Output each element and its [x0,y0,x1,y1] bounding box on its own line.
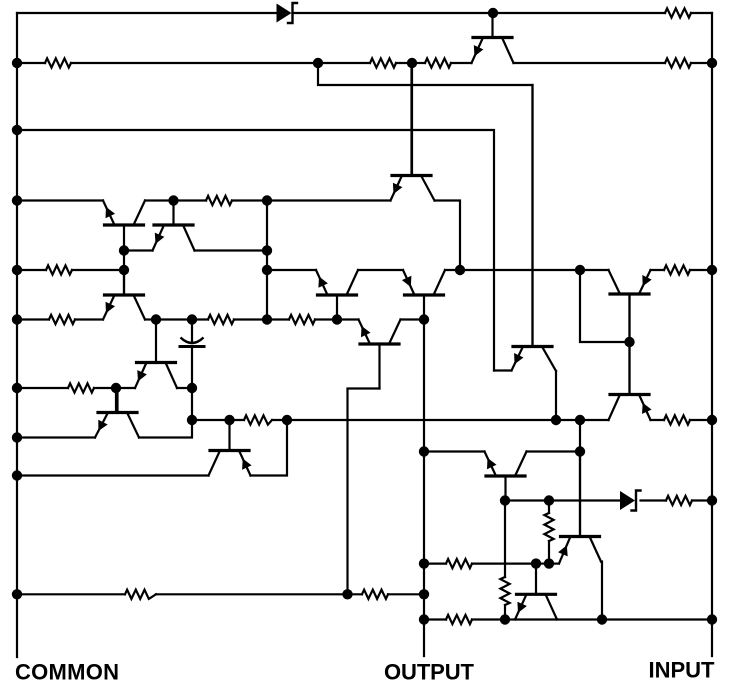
junction Q7/Q12 base node [624,337,634,347]
wire Q11 emitter to x494 [494,369,512,371]
wire y619 OUTPUT node to R19 [424,618,446,620]
wire R1 to node at x318 [71,62,318,64]
junction Q15 base node y500 [500,495,510,505]
wire y420 node287 to node556 [287,419,556,421]
junction Q14 base node y420 [224,415,234,425]
junction left rail y594 [12,589,22,599]
wire y619 node505 to Q16 collector node [505,618,602,620]
wire y130 long horizontal then down x494 [17,130,494,371]
transistor Q1 [472,13,514,63]
transistor Q15 [485,452,527,501]
wire Q9 collector to node x192 [177,387,192,389]
transistor Q12 [609,342,652,420]
wire cap top lead [191,320,193,344]
junction x267 y319 [262,314,272,324]
transistor Q14 [209,420,252,476]
junction x267 y200 [262,195,272,205]
junction right rail y420 [707,415,717,425]
wire x124 vertical base link [123,251,125,296]
resistor R19 [446,615,472,624]
wire left COMMON rail vertical [16,13,18,657]
junction left rail y200 [12,195,22,205]
wire y500 node549 to D2 anode [549,499,620,501]
wire R19 to node x505 [472,618,505,620]
transistor Q6 [402,270,445,320]
wire R9 to Q8 emitter [75,318,103,320]
transistor Q11 [512,85,557,371]
wire y451 OUTPUT node to Q15 emitter [424,450,485,452]
resistor R4 [665,58,691,67]
junction x580 y451 [575,446,585,456]
wire Q6 collector to node x460 [445,269,460,271]
junction right rail y500 [707,495,717,505]
wire y437 left rail to Q13 emitter [17,436,95,438]
junction x549 y563 [544,558,554,568]
wire R17 to divider node x347 [156,593,348,595]
wire node549 to Q16 emitter [549,562,559,564]
wire R10 to x267 [234,318,267,320]
wire OUTPUT line vertical [423,320,425,657]
wire y594 node347 to R18 [348,593,363,595]
resistor R18 [362,590,388,599]
wire D2 cathode to R15 [641,499,667,501]
junction left rail y270 [12,265,22,275]
wire R7 to Q2/Q8 base node [72,269,124,271]
wire R3 to Q1 emitter [451,62,472,64]
diode D2 (zener) [620,491,641,511]
transistor Q10 [359,320,401,389]
resistor R7 [46,265,72,274]
resistor R16 [446,559,472,568]
wire y270 left rail to R7 [17,269,46,271]
junction left rail y388 [12,383,22,393]
junction x192 y420 [187,415,197,425]
resistor R17 [125,590,156,599]
junction x602 y619 [597,614,607,624]
resistor R8 [664,265,690,274]
wire cap bottom lead [191,347,193,389]
transistor Q3 [153,201,195,251]
wire Q15 collector to node x580 [527,450,581,452]
svg-text:OUTPUT: OUTPUT [384,660,475,684]
resistor R11 [289,315,315,324]
wire y420 node556 to node580 [556,419,580,421]
resistor R12 [68,383,94,392]
wire y270 node460 to node580 [460,269,580,271]
transistor Q13 [95,389,139,438]
wire x629 base vertical Q7 to Q12 [628,294,630,395]
transistor Q16 [558,452,601,564]
junction OUTPUT line y451 [419,446,429,456]
junction OUTPUT line y319 [419,314,429,324]
transistor Q9 [135,320,177,389]
wire y319 left rail to R9 [17,318,49,320]
resistor R2 [370,58,396,67]
junction right rail y63 [707,58,717,68]
wire R16 to Q17 base node [472,562,536,564]
wire y270 node580 to Q7 collector [580,269,609,271]
resistor R21 vertical [500,577,509,605]
wire y319 cap node to R10 [192,318,208,320]
wire Q7 emitter to R8 [651,269,665,271]
junction Q17 base node y563 [531,558,541,568]
wire Q3 collector to x267 [195,249,268,251]
resistor R6 [206,196,232,205]
resistor R14 [664,415,690,424]
wire y270 node267 to Q5 emitter [267,269,316,271]
junction left rail y63 [12,58,22,68]
wire Q4 collector right then down to y270 [435,201,461,271]
resistor R13 [244,415,272,424]
wire Q16 collector down to y619 [601,562,602,620]
wire y319 to Q10 emitter [337,318,359,320]
junction x267 y250 [262,245,272,255]
wire y319 node267 to R11 [267,318,289,320]
wire y500 node505 to node549 [505,499,549,501]
wire y420 to R13 [230,419,245,421]
wire node580 down to base link y342 [580,270,630,342]
junction x460 y270 [455,265,465,275]
transistor Q2 [103,201,145,251]
junction x318 y63 [313,58,323,68]
junction x116 y388 [111,383,121,393]
wire y200 node267 to Q4 emitter [267,199,391,201]
junction Q2 base node y250 [119,245,129,255]
capacitor C1 curved plate [181,338,204,344]
wire y63 left rail to R1 [17,62,45,64]
junction left rail y437 [12,432,22,442]
resistor R3 [425,58,451,67]
wire Q2 collector to Q3 base node [145,199,174,201]
wire R2 to node x412 [396,62,412,64]
junction OUTPUT line y594 [419,589,429,599]
wire Q10 collector to OUTPUT node y319 [401,318,425,320]
wire y420 node192 to Q14 base node [192,419,230,421]
junction cap top node y319 [187,314,197,324]
wire R13 to node x287 [272,419,287,421]
transistor Q4 [391,63,435,201]
junction x549 y500 [544,495,554,505]
junction Q9 base node y319 [151,314,161,324]
wire R15 to right rail [692,499,712,501]
wire y63 node412 to R3 [412,62,425,64]
svg-text:INPUT: INPUT [649,658,716,683]
junction Q3 base node y200 [168,195,178,205]
junction x287 y420 [282,415,292,425]
wire y63 node318 to R2 [318,62,370,64]
wire node549 to R20 [548,501,550,514]
wire Q10 base jog to x347 [348,389,380,595]
transistor Q8 [103,270,145,320]
wire Q14 emitter loop [251,420,288,476]
junction OUTPUT line y563 [419,558,429,568]
transistor Q7 [609,270,652,342]
wire y319 node156 to cap node [156,318,192,320]
wire Q3 emitter to Q2 base node [124,249,153,251]
junction Q1 base on top rail [488,8,498,18]
wire y200 to R6 [174,199,207,201]
junction x124 y270 [119,265,129,275]
wire Q13 collector up to node x192 [139,388,192,438]
wire y420 node580 to Q12 collector [580,419,609,421]
diode D1 (zener) on top rail [277,3,298,23]
wire R14 to right rail [690,419,712,421]
wire R20 to node y563 [548,541,550,564]
resistor R1 [45,58,71,67]
wire Q4 base vertical x412 [411,63,413,176]
resistor R15 [666,496,692,505]
wire y619 node602 to right rail [602,618,712,620]
junction OUTPUT line y619 [419,614,429,624]
wire y594 left rail to R17 [17,593,125,595]
wire y388 left rail to R12 [17,387,68,389]
wire Q9 emitter to node x116 [116,387,135,389]
junction x580 y420 [575,415,585,425]
wire R8 to right rail [690,269,712,271]
wire R18 to OUTPUT node y594 [388,593,424,595]
wire x267 vertical [266,201,268,320]
wire y563 OUTPUT node to R16 [424,562,446,564]
junction right rail y619 [707,614,717,624]
junction left rail y475 [12,470,22,480]
junction x412 y63 (Q1 base feed) [407,58,417,68]
svg-text:COMMON: COMMON [15,660,119,684]
wire y475 left rail to Q14 collector [17,474,209,476]
junction left rail y130 [12,125,22,135]
junction x192 y388 [187,383,197,393]
wire top rail from D1 cathode to R5 [293,12,666,14]
wire R11 to Q5 base node [315,318,337,320]
wire R5 to top right corner then down [691,12,712,14]
junction x505 y619 [500,614,510,624]
transistor Q17 [515,564,557,620]
wire Q13 base vertical [115,388,117,413]
junction x556 y420 [551,415,561,425]
wire R4 to right rail [691,62,712,64]
wire R6 to node x267 [232,199,267,201]
wire y563 to node549 [536,562,549,564]
wire Q11 collector down to y420 [555,371,557,420]
wire y200 left rail to Q2 emitter [17,199,103,201]
junction x580 y270 [575,265,585,275]
wire Q8 collector to node x156 [145,318,156,320]
junction left rail y319 [12,314,22,324]
junction right rail y270 [707,265,717,275]
wire R21 to node y619 [504,605,506,620]
wire Q12 emitter to R14 [651,419,665,421]
resistor R5 on top rail [665,8,691,17]
junction Q5 base node y319 [332,314,342,324]
wire Q1 collector to R4 [514,62,666,64]
resistor R10 [208,315,234,324]
wire x580 vertical y420-y536 [579,420,581,537]
wire Q5 collector to Q6 emitter [358,269,403,271]
resistor R9 [49,315,75,324]
junction x267 y270 [262,265,272,275]
transistor Q5 [316,270,358,320]
junction divider node x347 y594 [342,589,352,599]
wire R12 to node x116 [94,387,116,389]
resistor R20 vertical [544,513,553,541]
capacitor C1 flat plate [180,345,204,348]
wire node318 down and right at y85 [318,63,533,347]
wire node505 down to R21 [504,501,506,578]
wire top rail left segment to diode anode [17,12,277,14]
wire right INPUT rail vertical [711,13,713,656]
